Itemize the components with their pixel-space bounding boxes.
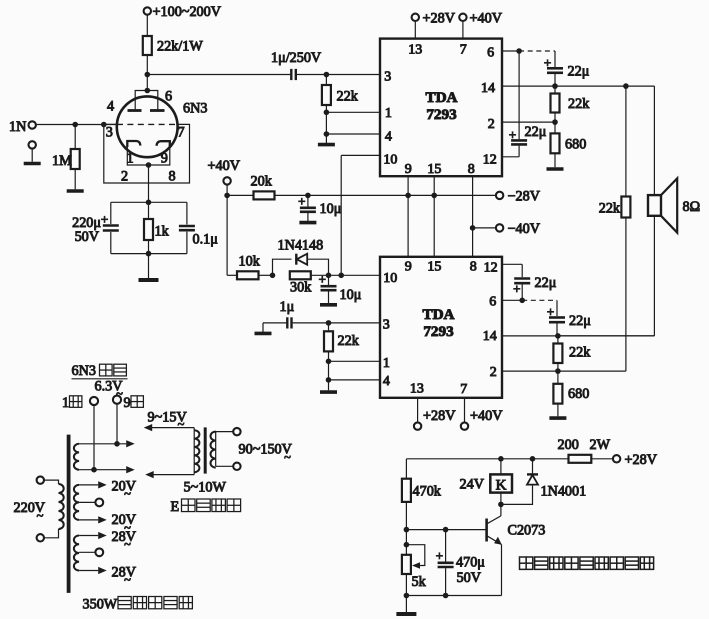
svg-text:22k: 22k [337, 89, 359, 105]
svg-text:15: 15 [427, 260, 441, 275]
secondary winding 28V [74, 536, 79, 571]
resistor 22k/1W [143, 36, 152, 55]
wire: U2 pin 14 output [502, 335, 654, 337]
svg-text:10μ: 10μ [320, 201, 342, 217]
label: tube HV delay circuit [520, 557, 533, 569]
ground under cathode RC [139, 278, 159, 282]
svg-text:+28V: +28V [423, 10, 456, 26]
capacitor 0.1u [186, 202, 188, 224]
svg-text:7: 7 [460, 382, 467, 397]
svg-text:1M: 1M [52, 153, 72, 169]
svg-text:+40V: +40V [470, 408, 503, 424]
wire: to U2 pin 1 [326, 359, 332, 365]
resistor 470k [405, 459, 407, 479]
terminal +40V (U2 pin 7) [464, 398, 466, 423]
svg-text:+: + [101, 211, 108, 226]
svg-text:50V: 50V [75, 229, 100, 245]
wire dashed: pin6 to bootstrap cap [519, 50, 555, 52]
tube 6N3 cathodes [127, 141, 140, 147]
wire: U2 pin 12 [502, 263, 522, 265]
capacitor 22u (U2 pin12-pin6) [514, 277, 530, 280]
svg-text:7293: 7293 [423, 323, 454, 340]
wire: plate node to coupling cap [147, 74, 291, 76]
capacitor 470u/50V [445, 530, 447, 562]
svg-text:+: + [547, 304, 554, 319]
svg-text:2: 2 [488, 117, 495, 132]
wire: U1 pin 8 to U2 pin 8 [472, 176, 474, 257]
svg-text:3: 3 [383, 317, 390, 332]
svg-text:−28V: −28V [508, 188, 541, 204]
svg-text:10: 10 [383, 153, 397, 168]
svg-text:6: 6 [487, 46, 494, 61]
svg-text:1: 1 [127, 151, 134, 167]
op-amp U2 TDA7293 (lower) [380, 257, 502, 398]
relay K 24V [500, 459, 502, 475]
terminal +28V (U1 pin 13) [414, 21, 416, 39]
diode 1N4148 [273, 259, 292, 275]
transistor C2073 [500, 504, 502, 516]
capacitor 220u/50V [110, 202, 112, 224]
tube 6N3 plate connection box [135, 91, 158, 110]
resistor 680 (U2) [557, 371, 559, 384]
svg-text:1k: 1k [155, 224, 170, 240]
svg-text:+100~200V: +100~200V [153, 4, 222, 20]
svg-text:6N3: 6N3 [183, 101, 207, 117]
svg-text:10k: 10k [239, 253, 261, 269]
svg-text:+: + [298, 193, 305, 208]
svg-text:3: 3 [384, 70, 391, 85]
svg-text:22k: 22k [569, 345, 591, 361]
tube 6N3 cathode box [127, 146, 170, 165]
svg-text:4: 4 [385, 129, 392, 144]
svg-text:~: ~ [124, 572, 131, 586]
svg-text:8: 8 [468, 162, 475, 177]
svg-text:+: + [436, 548, 443, 563]
svg-text:+28V: +28V [625, 452, 658, 468]
ground (delay circuit) [405, 596, 407, 613]
wire: emitter to bottom rail [501, 545, 503, 596]
heater winding 6.3V [74, 444, 79, 470]
svg-text:+: + [513, 281, 520, 296]
ground under 1M [67, 189, 84, 193]
secondary winding 20V [74, 485, 79, 520]
wire dashed: U2 pin6 to bootstrap cap [522, 299, 557, 301]
svg-text:~: ~ [178, 417, 185, 431]
wire: cathode to RC network [148, 165, 150, 202]
resistor 22k (U2 input) [328, 323, 330, 331]
svg-text:TDA: TDA [425, 89, 457, 106]
svg-text:22μ: 22μ [569, 313, 591, 329]
wire: output to speaker (top) [653, 86, 655, 195]
resistor 20k [254, 191, 275, 199]
svg-text:+28V: +28V [423, 408, 456, 424]
svg-text:50V: 50V [457, 570, 482, 586]
svg-text:~: ~ [124, 486, 131, 500]
svg-text:22k: 22k [599, 200, 621, 216]
terminal -28V [496, 192, 503, 199]
resistor 22k (U2 feedback) [557, 336, 559, 344]
svg-text:10μ: 10μ [340, 287, 362, 303]
svg-text:3: 3 [106, 125, 113, 141]
ground under 680 (U2) [549, 416, 566, 420]
svg-text:9: 9 [161, 151, 168, 167]
svg-text:1N4001: 1N4001 [541, 483, 587, 499]
wire: +100~200V supply to 22k/1W [144, 7, 151, 14]
svg-text:12: 12 [483, 153, 497, 168]
svg-text:8: 8 [169, 169, 176, 185]
svg-text:5k: 5k [412, 574, 427, 590]
wire: -28V rail [227, 194, 253, 196]
svg-text:4: 4 [383, 374, 390, 389]
wire: 30k to U2 pin 10 [311, 274, 380, 276]
wire: input to grid [36, 124, 117, 126]
svg-text:470k: 470k [413, 483, 442, 499]
resistor 30k [290, 271, 311, 279]
svg-text:2W: 2W [590, 437, 611, 453]
op-amp U1 TDA7293 (upper) [380, 39, 502, 177]
E-transformer primary [144, 424, 153, 431]
node: relay/diode/collector [498, 502, 504, 508]
svg-text:14: 14 [483, 329, 497, 344]
speaker 8 ohm [648, 195, 661, 216]
wire: to pin 1 of U1 [324, 110, 330, 116]
svg-text:+: + [509, 127, 516, 142]
svg-text:200: 200 [558, 437, 579, 453]
resistor 200/2W [569, 455, 592, 463]
svg-text:22μ: 22μ [525, 124, 547, 140]
input ground terminal [29, 141, 36, 148]
svg-text:6N3: 6N3 [72, 363, 96, 379]
resistor 22k (bridge feedback) [625, 86, 627, 196]
svg-text:12: 12 [484, 260, 498, 275]
wire: U1 pin 2 [552, 119, 558, 125]
capacitor 10u (bias) [307, 195, 309, 206]
svg-text:+: + [319, 272, 326, 287]
svg-text:2: 2 [121, 169, 128, 185]
wire: U1 pin 9 to U2 pin 9 [407, 176, 409, 257]
wire: +40V down to 10k [226, 195, 228, 275]
wire: to pin 4 of U1 [324, 131, 330, 137]
svg-text:7293: 7293 [426, 106, 457, 123]
terminal -40V [473, 227, 496, 229]
resistor 22k (U1 feedback) [554, 86, 556, 93]
svg-text:4: 4 [107, 99, 114, 115]
svg-text:1μ/250V: 1μ/250V [271, 50, 322, 66]
svg-text:6: 6 [489, 295, 496, 310]
svg-text:22k/1W: 22k/1W [157, 39, 203, 55]
ground under 22k (U1 input) [318, 143, 335, 147]
wire: to U2 pin 4 [326, 377, 332, 383]
wire: delay circuit +28V rail [406, 458, 568, 460]
wire: cathode RC top rail [111, 201, 187, 203]
svg-text:22μ: 22μ [568, 64, 590, 80]
svg-text:6: 6 [165, 89, 172, 105]
capacitor 22u (U1 bootstrap) [554, 51, 556, 67]
wire: U1 pin 12 [502, 156, 519, 158]
node: U2 pin 3 [326, 320, 332, 326]
svg-text:13: 13 [410, 381, 424, 396]
wire: pin9 terminal down [116, 404, 118, 444]
resistor 680 (U1) [554, 122, 556, 133]
wire: U1 pin 15 to U2 pin 15 [433, 176, 435, 257]
resistor 10k [227, 274, 237, 276]
wire: U1 pin 10 down to U2 pin 10 [341, 154, 380, 156]
terminal +28V (delay) [613, 455, 620, 462]
wire: bridge 22k to U2 pin 2 [558, 370, 626, 372]
svg-text:14: 14 [481, 81, 495, 96]
node: 10k/30k/diode junction [270, 273, 276, 279]
svg-text:9: 9 [405, 162, 412, 177]
svg-text:9: 9 [405, 260, 412, 275]
toroidal transformer core [67, 435, 71, 593]
svg-text:5~10W: 5~10W [184, 479, 227, 495]
svg-text:E: E [171, 499, 180, 515]
svg-text:1μ: 1μ [280, 299, 295, 315]
terminal pin9 (heater) [113, 396, 121, 404]
primary winding 220V [37, 476, 44, 483]
svg-text:30k: 30k [290, 280, 312, 296]
E-transformer core [204, 427, 207, 473]
tube 6N3 envelope [117, 96, 178, 157]
resistor 1M [74, 125, 76, 150]
svg-text:13: 13 [408, 43, 422, 58]
svg-text:8: 8 [470, 260, 477, 275]
terminal +40V (U1 pin 7) [462, 21, 464, 39]
wire: speaker to U2 output [653, 216, 655, 336]
capacitor 22u (U2 bootstrap) [556, 300, 558, 316]
E-transformer secondary 90~150V [215, 431, 217, 466]
wire: cathode RC bottom rail [111, 253, 187, 255]
tube 6N3 grid (dashed) [117, 123, 178, 125]
ground under 22k (U2 input) [320, 390, 337, 394]
svg-text:22k: 22k [338, 333, 360, 349]
svg-text:1: 1 [385, 106, 392, 121]
svg-text:TDA: TDA [422, 306, 454, 323]
svg-text:~: ~ [284, 450, 291, 464]
capacitor 10u (mute) [328, 275, 330, 285]
svg-text:+40V: +40V [208, 158, 241, 174]
svg-text:2: 2 [490, 365, 497, 380]
diode 1N4001 [532, 459, 534, 474]
ground under 10u mute [320, 303, 337, 307]
svg-text:~: ~ [37, 509, 44, 523]
svg-text:1N4148: 1N4148 [278, 238, 324, 254]
ground under 680 (U1) [547, 167, 564, 171]
wire: U1 pin 14 output [502, 85, 654, 87]
tube 6N3 socket box [104, 124, 190, 183]
wire: transistor base rail [406, 529, 486, 531]
svg-text:350W: 350W [83, 597, 118, 613]
svg-text:C2073: C2073 [508, 523, 546, 539]
potentiometer 5k [405, 530, 407, 555]
svg-text:680: 680 [565, 137, 586, 153]
wire: pin1 terminal down [93, 405, 95, 470]
capacitor 22u (U1 pin12-pin6) [511, 139, 527, 142]
wire: U2 pin 2 [555, 368, 561, 374]
svg-text:22μ: 22μ [535, 275, 557, 291]
svg-text:7: 7 [460, 43, 467, 58]
svg-text:470μ: 470μ [456, 554, 485, 570]
svg-text:1: 1 [383, 356, 390, 371]
svg-text:22k: 22k [568, 96, 590, 112]
resistor 22k (U1 input) [325, 75, 327, 86]
svg-text:K: K [496, 478, 507, 494]
svg-text:1N: 1N [9, 119, 26, 135]
svg-text:+40V: +40V [470, 10, 503, 26]
svg-text:8Ω: 8Ω [683, 199, 701, 215]
tube 6N3 plates [128, 109, 142, 112]
svg-text:+: + [544, 55, 551, 70]
svg-text:24V: 24V [460, 476, 485, 492]
resistor 1k [148, 202, 150, 219]
svg-text:9: 9 [124, 395, 131, 411]
svg-text:10: 10 [383, 271, 397, 286]
wire: U2 pin 6 node [502, 299, 522, 301]
svg-text:20k: 20k [251, 173, 273, 189]
wire: cap to pin 3 of U1 [296, 74, 380, 76]
svg-text:−40V: −40V [508, 221, 541, 237]
svg-text:680: 680 [568, 386, 589, 402]
svg-text:~: ~ [124, 537, 131, 551]
terminal +28V (U2 pin 13) [417, 398, 419, 423]
wire: 22k/1W to plate node [146, 55, 148, 91]
wire: U1 pin 6 node [502, 50, 519, 52]
svg-text:15: 15 [427, 162, 441, 177]
svg-text:1: 1 [62, 395, 69, 411]
svg-text:0.1μ: 0.1μ [193, 232, 219, 248]
svg-text:7: 7 [178, 125, 185, 141]
ground under 10u bias [299, 221, 316, 225]
